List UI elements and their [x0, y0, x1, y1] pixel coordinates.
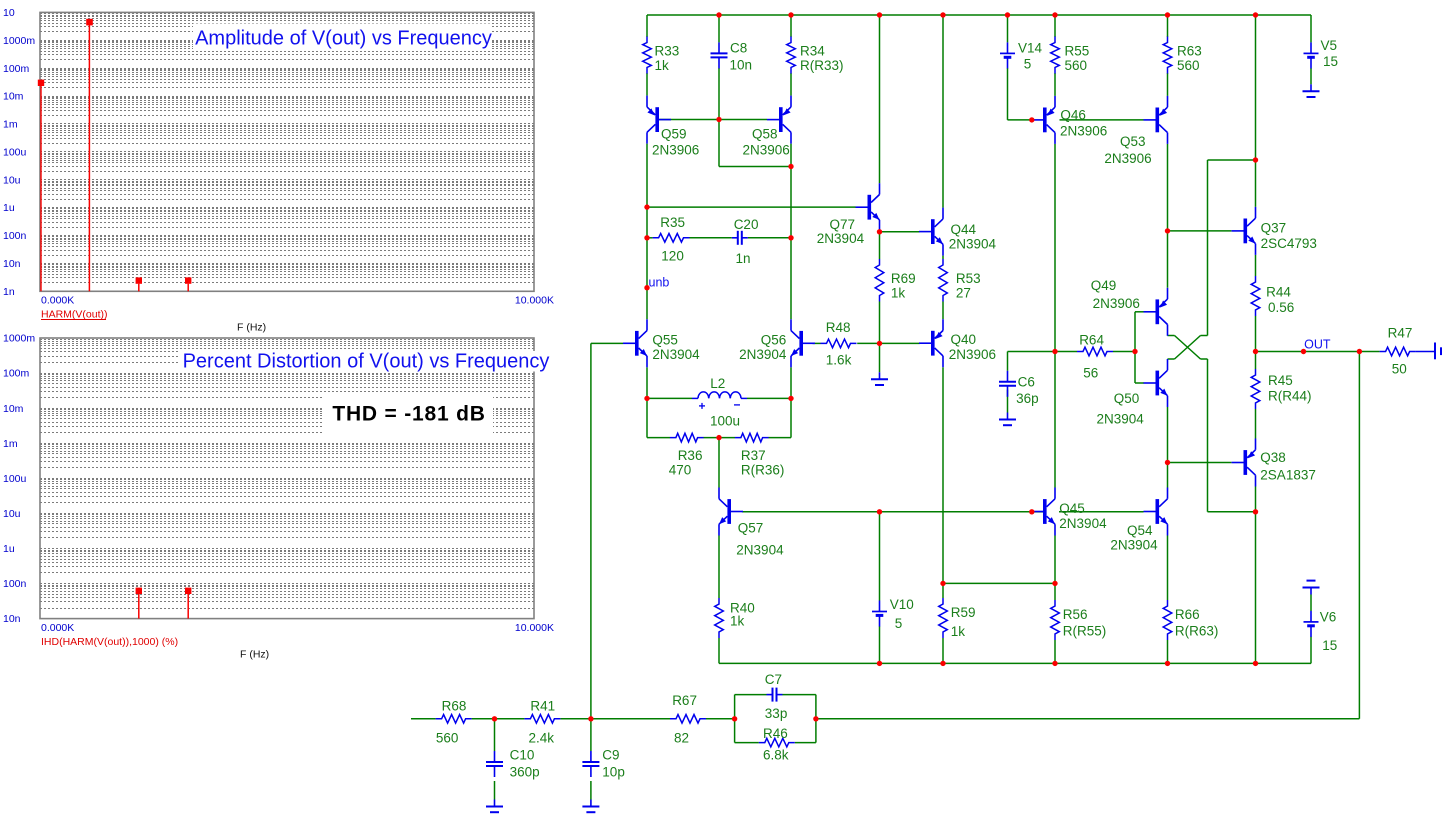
label R45 [1268, 373, 1293, 388]
wire [494, 719, 496, 751]
resistor R44 [1251, 276, 1260, 316]
wire [735, 694, 767, 696]
label R(R33) [800, 58, 844, 73]
svg-text:2N3904: 2N3904 [949, 237, 997, 252]
label R67 [672, 693, 697, 708]
svg-text:2N3904: 2N3904 [817, 231, 865, 246]
ground [871, 372, 888, 385]
junction [1253, 157, 1258, 162]
svg-text:2SA1837: 2SA1837 [1260, 468, 1316, 483]
svg-text:R53: R53 [956, 271, 981, 286]
junction [1052, 349, 1057, 354]
junction [1165, 460, 1170, 465]
transistor Q59 [647, 96, 671, 144]
label Q46 [1060, 108, 1086, 123]
wire [1055, 351, 1077, 353]
wire [879, 626, 881, 663]
wire [1168, 462, 1232, 464]
label Q77 [830, 217, 856, 232]
label 2N3906 [1104, 151, 1151, 166]
junction [1029, 117, 1034, 122]
svg-text:R67: R67 [672, 693, 697, 708]
svg-text:V5: V5 [1321, 38, 1338, 53]
resistor R45 [1251, 369, 1260, 409]
svg-text:2N3906: 2N3906 [1093, 296, 1140, 311]
svg-text:OUT: OUT [1304, 338, 1331, 352]
svg-text:R(R36): R(R36) [741, 463, 785, 478]
wire [718, 638, 720, 663]
capacitor C9 [582, 751, 599, 777]
wire [943, 582, 1055, 584]
svg-text:R56: R56 [1063, 607, 1088, 622]
wire [1007, 15, 1009, 42]
label Q57 [738, 520, 764, 535]
wire [590, 343, 592, 718]
svg-text:15: 15 [1323, 54, 1338, 69]
label 2N3904 [1059, 516, 1107, 531]
wire [718, 536, 720, 599]
junction [1165, 228, 1170, 233]
svg-text:5: 5 [895, 616, 903, 631]
svg-text:50: 50 [1392, 362, 1407, 377]
label Q37 [1261, 221, 1287, 236]
svg-text:V6: V6 [1320, 610, 1337, 625]
label 470 [669, 463, 692, 478]
resistor R63 [1163, 37, 1172, 74]
wire [1208, 159, 1256, 161]
wire [1255, 316, 1257, 352]
wire [1167, 73, 1169, 96]
wire [1032, 511, 1043, 513]
plot 1 x-axis labels [41, 295, 554, 307]
resistor R37 [735, 433, 769, 442]
resistor R48 [821, 339, 857, 348]
wire [1168, 336, 1208, 360]
wire [790, 398, 792, 437]
svg-text:10m: 10m [3, 91, 24, 103]
wire [1060, 119, 1144, 121]
wire [1008, 119, 1032, 121]
voltage source V10 [872, 601, 887, 627]
resistor R66 [1163, 600, 1172, 640]
wire [1310, 15, 1312, 42]
label C9 [602, 748, 619, 763]
svg-text:R35: R35 [660, 215, 685, 230]
resistor R59 [939, 598, 948, 638]
label 2N3904 [949, 237, 997, 252]
resistor R46 [759, 738, 795, 747]
wire [646, 144, 648, 320]
label 6.8k [763, 748, 789, 763]
ground [582, 800, 599, 813]
svg-text:10.000K: 10.000K [515, 295, 554, 307]
wire [813, 342, 821, 344]
wire [795, 742, 816, 744]
label R(R36) [741, 463, 785, 478]
label 2.4k [529, 731, 555, 746]
label Q38 [1260, 450, 1286, 465]
ground [486, 800, 503, 813]
label 82 [674, 731, 689, 746]
wire [1358, 352, 1360, 719]
svg-text:C10: C10 [510, 748, 535, 763]
svg-text:R(R55): R(R55) [1063, 623, 1107, 638]
wire [1167, 15, 1169, 37]
capacitor C8 [711, 42, 728, 68]
svg-text:0.56: 0.56 [1268, 300, 1294, 315]
svg-text:10n: 10n [3, 258, 21, 270]
label 50 [1392, 362, 1407, 377]
svg-text:R33: R33 [655, 44, 680, 59]
wire [790, 367, 792, 398]
junction [716, 12, 721, 17]
resistor R41 [524, 715, 560, 724]
label 2N3904 [1097, 412, 1145, 427]
svg-text:R63: R63 [1177, 44, 1202, 59]
plot 1 title background [193, 24, 492, 51]
svg-text:V14: V14 [1018, 40, 1043, 55]
label Q55 [652, 332, 678, 347]
junction [1357, 349, 1362, 354]
transistor Q50 [1144, 359, 1168, 407]
junction [788, 396, 793, 401]
label R63 [1177, 44, 1202, 59]
transistor Q49 [1144, 288, 1168, 336]
wire [1167, 407, 1169, 488]
svg-text:R46: R46 [763, 726, 788, 741]
junction [1165, 661, 1170, 666]
wire [690, 237, 732, 239]
svg-text:Q45: Q45 [1059, 501, 1085, 516]
junction [940, 661, 945, 666]
wire [879, 232, 881, 259]
svg-text:33p: 33p [765, 706, 788, 721]
wire [719, 166, 791, 168]
label V6 [1320, 610, 1337, 625]
label 2N3906 [743, 143, 790, 158]
svg-text:R64: R64 [1079, 333, 1104, 348]
svg-text:10p: 10p [602, 765, 625, 780]
svg-text:2N3906: 2N3906 [652, 143, 699, 158]
junction [877, 229, 882, 234]
label 2N3906 [1093, 296, 1140, 311]
svg-text:0.000K: 0.000K [41, 295, 74, 307]
wire [1113, 351, 1135, 353]
wire [742, 511, 1032, 513]
wire [942, 583, 944, 598]
label Q53 [1120, 134, 1146, 149]
transistor Q54 [1144, 488, 1168, 536]
wire [1255, 255, 1257, 276]
wire [706, 718, 735, 720]
wire [647, 206, 856, 208]
svg-text:27: 27 [956, 285, 971, 300]
svg-text:Q37: Q37 [1261, 221, 1287, 236]
label 1k [951, 624, 966, 639]
plot 2 frame [40, 338, 534, 619]
transistor Q37 [1232, 207, 1256, 255]
voltage source V14 [1000, 42, 1015, 68]
svg-text:Q55: Q55 [652, 332, 678, 347]
plot 2 data stem 2kHz [136, 588, 142, 619]
svg-text:2N3906: 2N3906 [949, 347, 996, 362]
svg-text:R44: R44 [1266, 284, 1291, 299]
junction [492, 716, 497, 721]
label V5 [1321, 38, 1338, 53]
wire [1167, 536, 1169, 601]
wire [790, 15, 792, 37]
junction [1132, 349, 1137, 354]
svg-text:2N3904: 2N3904 [1097, 412, 1145, 427]
label R53 [956, 271, 981, 286]
transistor Q44 [919, 208, 943, 256]
wire [748, 237, 791, 239]
svg-text:1k: 1k [951, 624, 966, 639]
wire [1135, 311, 1144, 313]
svg-text:1k: 1k [655, 58, 670, 73]
wire [879, 343, 881, 372]
label Q50 [1114, 391, 1140, 406]
label 2N3904 [817, 231, 865, 246]
svg-text:5: 5 [1024, 57, 1032, 72]
wire [747, 397, 791, 399]
label 15 [1322, 638, 1337, 653]
junction [1253, 12, 1258, 17]
label C7 [765, 672, 782, 687]
wire [411, 718, 436, 720]
label R56 [1063, 607, 1088, 622]
svg-text:560: 560 [436, 731, 459, 746]
label Q58 [752, 127, 778, 142]
svg-text:560: 560 [1177, 58, 1200, 73]
wire [1008, 351, 1056, 353]
wire [1255, 487, 1257, 512]
plot 2 data stem 3kHz [185, 588, 191, 619]
svg-text:C7: C7 [765, 672, 782, 687]
wire [704, 437, 736, 439]
svg-text:10n: 10n [3, 613, 21, 625]
label 5 [1024, 57, 1032, 72]
node unb [649, 276, 670, 290]
label 10p [602, 765, 625, 780]
wire [879, 15, 881, 183]
plot 1 grid [40, 14, 534, 283]
svg-text:1.6k: 1.6k [826, 352, 852, 367]
svg-text:100n: 100n [3, 230, 27, 242]
label 100u [710, 414, 740, 429]
junction [788, 164, 793, 169]
label Q44 [951, 222, 977, 237]
svg-text:470: 470 [669, 463, 692, 478]
wire [560, 718, 591, 720]
svg-text:2N3906: 2N3906 [1104, 151, 1151, 166]
svg-text:Q38: Q38 [1260, 450, 1286, 465]
plot 1 data stem 2kHz [136, 277, 142, 291]
wire [646, 398, 648, 437]
label R33 [655, 44, 680, 59]
wire [790, 144, 792, 320]
label R64 [1079, 333, 1104, 348]
svg-text:R41: R41 [530, 699, 555, 714]
wire [816, 718, 1360, 720]
svg-text:R36: R36 [678, 448, 703, 463]
transistor Q46 [1031, 96, 1055, 144]
svg-text:2N3906: 2N3906 [1060, 123, 1107, 138]
wire [735, 742, 759, 744]
voltage source V6 [1304, 611, 1319, 637]
svg-text:100u: 100u [710, 414, 740, 429]
svg-text:R55: R55 [1065, 44, 1090, 59]
svg-text:10u: 10u [3, 508, 21, 520]
transistor Q77 [856, 183, 880, 231]
label 1.6k [826, 352, 852, 367]
wire [942, 256, 944, 259]
svg-text:1k: 1k [891, 285, 906, 300]
svg-text:C9: C9 [602, 748, 619, 763]
label 2N3906 [652, 143, 699, 158]
load terminal [1416, 343, 1441, 360]
wire [1310, 68, 1312, 84]
wire [1255, 15, 1257, 207]
wire [1168, 230, 1232, 232]
label 2N3904 [1110, 537, 1158, 552]
wire [1167, 640, 1169, 663]
junction [877, 12, 882, 17]
svg-text:Q53: Q53 [1120, 134, 1146, 149]
label 560 [1177, 58, 1200, 73]
capacitor C6 [999, 371, 1016, 397]
wire [718, 438, 720, 488]
label 36p [1016, 391, 1039, 406]
svg-text:2N3904: 2N3904 [1059, 516, 1107, 531]
label R(R55) [1063, 623, 1107, 638]
svg-text:100u: 100u [3, 146, 27, 158]
svg-text:1m: 1m [3, 119, 18, 131]
svg-text:C8: C8 [730, 41, 747, 56]
junction [1253, 509, 1258, 514]
wire [590, 719, 592, 751]
svg-text:R37: R37 [741, 448, 766, 463]
wire [1255, 352, 1257, 370]
junction [1052, 581, 1057, 586]
label 360p [510, 765, 540, 780]
label 10n [730, 58, 753, 73]
wire [647, 437, 670, 439]
label R68 [442, 699, 467, 714]
transistor Q56 [791, 319, 815, 367]
wire [879, 302, 881, 344]
junction [644, 396, 649, 401]
label R66 [1175, 607, 1200, 622]
label 560 [436, 731, 459, 746]
label 2N3906 [1060, 123, 1107, 138]
wire [1007, 352, 1009, 371]
wire [591, 342, 623, 344]
svg-text:R45: R45 [1268, 373, 1293, 388]
svg-text:15: 15 [1322, 638, 1337, 653]
junction [877, 341, 882, 346]
svg-text:R(R44): R(R44) [1268, 389, 1312, 404]
junction [788, 12, 793, 17]
junction [732, 716, 737, 721]
junction [877, 509, 882, 514]
label 2N3904 [739, 347, 787, 362]
wire [734, 695, 736, 743]
svg-text:R69: R69 [891, 271, 916, 286]
wire [646, 15, 648, 37]
wire [1007, 390, 1009, 413]
label R41 [530, 699, 555, 714]
junction [940, 12, 945, 17]
resistor R47 [1380, 347, 1416, 356]
plot 2 title background [179, 351, 553, 372]
svg-text:100u: 100u [3, 473, 27, 485]
svg-text:C20: C20 [734, 217, 759, 232]
label R59 [951, 605, 976, 620]
wire [1054, 144, 1056, 488]
svg-text:1m: 1m [3, 438, 18, 450]
wire [879, 512, 881, 601]
transistor Q58 [767, 96, 791, 144]
svg-text:R47: R47 [1388, 326, 1413, 341]
label Q56 [761, 332, 787, 347]
svg-text:1n: 1n [736, 251, 751, 266]
svg-text:0.000K: 0.000K [41, 622, 74, 634]
ground [1303, 84, 1320, 97]
wire [647, 14, 1311, 16]
resistor R67 [670, 715, 706, 724]
junction [1253, 661, 1258, 666]
svg-text:1000m: 1000m [3, 333, 35, 345]
label 15 [1323, 54, 1338, 69]
svg-text:360p: 360p [510, 765, 540, 780]
inductor L2 [692, 392, 747, 409]
junction [1253, 349, 1258, 354]
label R48 [826, 320, 851, 335]
label 120 [661, 249, 684, 264]
wire [1255, 512, 1257, 664]
voltage source V5 [1304, 42, 1319, 68]
wire [1054, 15, 1056, 37]
svg-text:R48: R48 [826, 320, 851, 335]
plot 1 curve name HARM(V(out)) [41, 309, 108, 321]
svg-text:560: 560 [1065, 58, 1088, 73]
svg-text:6.8k: 6.8k [763, 748, 789, 763]
plot 1 y-axis labels [3, 7, 35, 298]
wire [1007, 68, 1009, 120]
svg-text:IHD(HARM(V(out)),1000) (%): IHD(HARM(V(out)),1000) (%) [41, 636, 178, 648]
resistor R40 [715, 598, 724, 638]
wire [718, 120, 720, 167]
svg-text:1k: 1k [730, 614, 745, 629]
junction [940, 581, 945, 586]
ground [999, 413, 1016, 426]
resistor R64 [1077, 347, 1113, 356]
wire [1135, 382, 1144, 384]
wire [942, 638, 944, 663]
junction [716, 435, 721, 440]
wire [659, 119, 767, 121]
label V10 [890, 597, 914, 612]
label 5 [895, 616, 903, 631]
wire [718, 68, 720, 120]
label R69 [891, 271, 916, 286]
label Q40 [951, 332, 977, 347]
resistor R56 [1051, 600, 1060, 640]
svg-text:THD = -181 dB: THD = -181 dB [332, 403, 485, 426]
wire [790, 73, 792, 96]
svg-text:Q59: Q59 [661, 127, 687, 142]
